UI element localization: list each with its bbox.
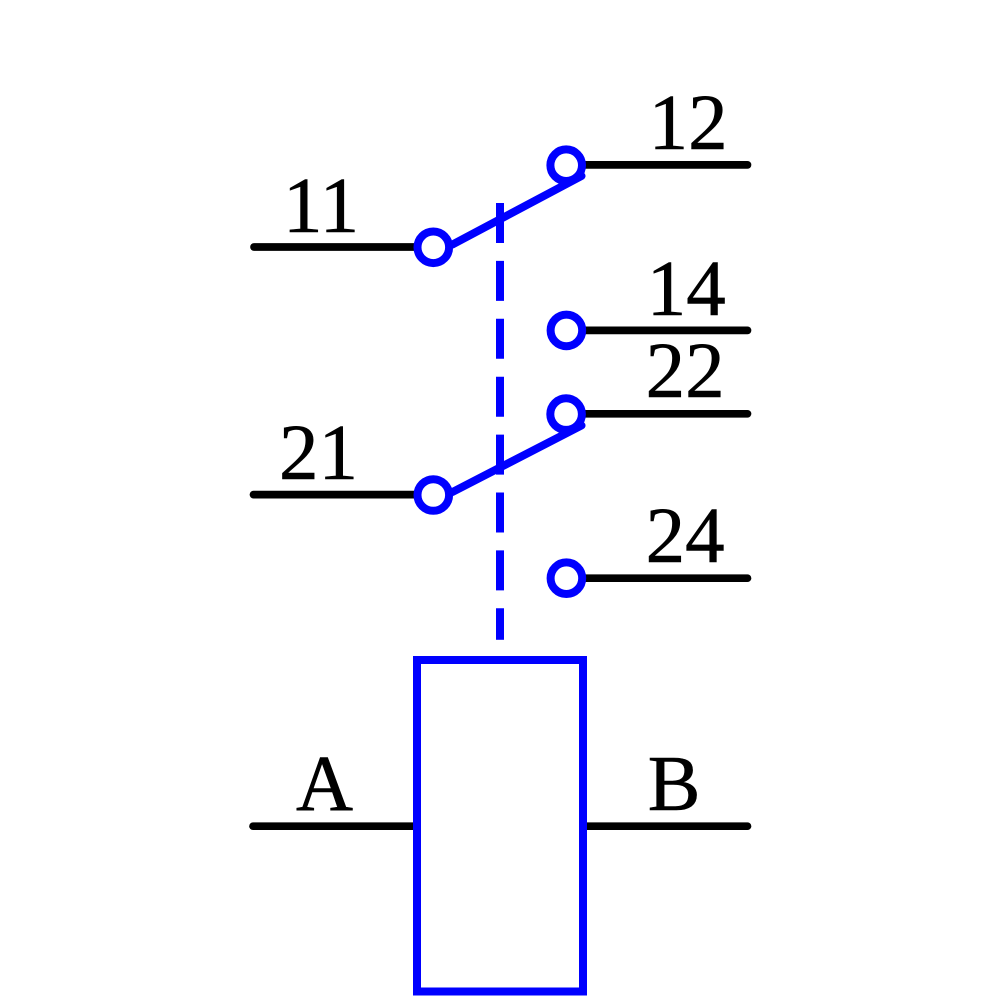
contact circle 12 <box>550 149 582 181</box>
svg-text:11: 11 <box>283 163 359 250</box>
switch arm contact 2 (21 to 22) <box>453 426 582 493</box>
wire terminal 14 <box>566 327 747 335</box>
contact circle 11 <box>418 232 450 264</box>
svg-text:A: A <box>296 741 353 828</box>
contact circle 21 <box>418 479 450 511</box>
contact circle 22 <box>550 398 582 430</box>
wire coil terminal A <box>253 822 420 830</box>
mechanical linkage dashed line <box>496 203 504 640</box>
wire terminal 11 <box>254 243 433 251</box>
relay coil rectangle <box>417 660 583 992</box>
svg-text:21: 21 <box>279 410 358 497</box>
switch arm contact 1 (11 to 12) <box>453 176 582 245</box>
contact circle 14 <box>551 315 583 347</box>
svg-text:14: 14 <box>647 246 726 333</box>
svg-text:12: 12 <box>649 80 728 167</box>
wire terminal 21 <box>254 491 434 499</box>
svg-text:B: B <box>648 741 701 828</box>
svg-text:22: 22 <box>646 328 725 415</box>
wire coil terminal B <box>583 822 748 830</box>
wire terminal 12 <box>566 161 747 169</box>
wire terminal 24 <box>566 574 747 582</box>
contact circle 24 <box>551 562 583 594</box>
svg-text:24: 24 <box>646 493 725 580</box>
wire terminal 22 <box>566 410 747 418</box>
